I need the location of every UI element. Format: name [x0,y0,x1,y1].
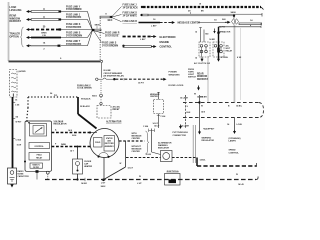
svg-text:CENTER: CENTER [132,138,141,140]
svg-text:8: 8 [105,13,107,15]
label without message center [132,146,143,153]
label w br [194,94,203,99]
label ac clutch relay [113,106,120,112]
svg-text:CONTROL: CONTROL [229,152,240,154]
svg-text:POWER: POWER [169,72,178,74]
svg-text:AND: AND [107,140,111,143]
svg-text:MESSAGE CENTER: MESSAGE CENTER [178,22,201,25]
label message center [178,22,201,25]
brace message center options [146,131,149,154]
svg-text:14 L/B: 14 L/B [238,183,244,186]
svg-text:4 1/8: 4 1/8 [237,56,241,59]
svg-text:CONNECTOR: CONNECTOR [173,135,187,137]
svg-text:CAPACITOR: CAPACITOR [18,175,30,178]
svg-text:FUSE LINK T: FUSE LINK T [66,41,81,43]
svg-text:FUSE LINK K: FUSE LINK K [66,24,81,26]
wire K1 down [201,57,204,62]
wire rail2 dashed [183,117,259,119]
wire C604 riser [152,129,161,155]
wire W4 trailer feed solid [26,32,61,39]
wire breaker chain to power windows [116,78,167,85]
wire gray feeder top [9,58,101,61]
label fuse link T [66,41,82,46]
label fuse panel [19,70,26,73]
wire alt output chain [119,140,145,142]
svg-text:S: S [60,58,62,60]
svg-text:W BLACK: W BLACK [81,98,91,101]
svg-text:S60: S60 [222,19,226,21]
svg-text:SPEED: SPEED [229,150,237,152]
wire dotted riser [99,18,101,61]
node EEC fanout [110,16,112,18]
wire diag to S602 [104,167,126,180]
svg-text:FUSE LINK J: FUSE LINK J [66,14,81,16]
svg-text:14 B: 14 B [68,129,73,132]
svg-text:BLK: BLK [187,112,192,114]
svg-text:L B/Y: L B/Y [151,26,157,28]
wire bottom right feed [197,163,257,167]
label fuse link S 14ga [102,43,125,48]
wire fan to link S14 [94,31,102,42]
wire S608 feed [140,10,262,16]
wire alt bottom drop [103,158,105,180]
wire msg to diamond [198,18,231,24]
label top right small [237,56,241,59]
label relay K2 [226,45,233,53]
connector feeder end [100,60,102,77]
label fuse link J [66,14,82,19]
svg-text:DOOR LOCKS: DOOR LOCKS [169,85,184,87]
svg-text:RELAY: RELAY [113,108,120,111]
svg-text:14 L/B/H: 14 L/B/H [180,97,189,100]
svg-text:C 58: C 58 [15,104,20,106]
connector C604 bracket [143,122,159,132]
svg-text:28: 28 [188,10,191,12]
wire dotted horiz y97 [28,92,78,97]
svg-text:RELAY: RELAY [226,50,233,53]
wire rail1 dashed [183,102,259,104]
regulator stage D [30,163,43,169]
label warm regulator [202,136,215,142]
svg-text:REGULATOR: REGULATOR [202,139,215,142]
svg-text:FUSE LINK V: FUSE LINK V [77,85,91,87]
svg-text:14 BR: 14 BR [201,96,207,99]
svg-text:30: 30 [43,27,46,29]
svg-text:LAMPS: LAMPS [229,140,237,143]
wire thermactor branch [213,25,231,33]
svg-text:S60: S60 [205,34,208,36]
wire W2 tail to splice [61,20,92,30]
regulator stage A [30,124,47,137]
svg-text:S601: S601 [92,96,98,98]
svg-text:FIELD: FIELD [37,155,43,157]
svg-text:14 L/B: 14 L/B [146,153,152,156]
label door locks [169,85,184,87]
svg-text:W 14 B/L: W 14 B/L [221,56,229,59]
wire EEC hollow [100,13,113,22]
svg-text:14 GA BROWN: 14 GA BROWN [66,34,82,37]
relay box ac clutch [97,106,111,119]
label alternator warning indicator [158,141,172,149]
svg-text:ASSEMBLY: ASSEMBLY [105,145,115,148]
label fuse link K [66,24,82,29]
label load leveling [10,6,22,12]
battery box [8,168,17,184]
svg-text:4: 4 [250,24,252,27]
battery ground arrow [10,184,13,187]
wire choke to ground rail [76,174,78,181]
svg-text:14 L/B/H: 14 L/B/H [181,124,190,127]
wire left margin gray vertical [8,2,10,61]
wire firewall corner down [197,158,206,167]
wire top dashed bus [141,3,264,12]
label wot text [203,128,215,130]
svg-text:S602: S602 [101,186,107,188]
wire fan to link R16 [94,31,105,34]
wire W2 rear defrost feed [26,17,61,21]
svg-text:16: 16 [153,19,156,21]
svg-text:FUSE LINK R: FUSE LINK R [105,33,120,35]
label rail right [236,174,244,186]
label fuse link V [77,85,92,90]
svg-text:ELECTRONIC: ELECTRONIC [160,36,176,39]
svg-text:W: W [194,94,196,96]
label between relays [209,38,215,41]
svg-text:DEFROST: DEFROST [10,20,22,23]
svg-text:HEATER: HEATER [84,165,93,168]
label trailer option [10,33,21,39]
svg-text:2: 2 [43,48,45,50]
svg-text:REGULATOR: REGULATOR [54,122,67,125]
wire choke vertical [70,146,79,160]
svg-text:16 GA BLUE: 16 GA BLUE [105,34,119,37]
svg-text:INDICATOR: INDICATOR [158,147,169,150]
wire msgbox stub bottom [154,114,165,129]
wire indicator to firewall [172,157,197,159]
svg-text:14 L/Y: 14 L/Y [128,167,134,170]
svg-text:MESSAGE: MESSAGE [132,148,143,151]
svg-text:A/C: A/C [226,45,230,48]
svg-text:14 GA BLACK: 14 GA BLACK [66,26,82,29]
label with message center [132,133,143,140]
node S602 [101,179,107,188]
inline breaker symbol [96,78,116,80]
svg-text:14 B/L: 14 B/L [200,158,207,161]
wire K2 down [217,57,220,62]
svg-text:18: 18 [199,3,201,5]
svg-text:14: 14 [43,41,46,44]
svg-text:14 GA GREEN: 14 GA GREEN [77,87,92,90]
regulator stage C [29,153,50,161]
wire without branch chain [126,157,161,159]
capacitor symbol [46,171,49,179]
svg-text:A/C (B): A/C (B) [113,106,120,109]
svg-text:ALTERNATOR: ALTERNATOR [158,141,172,144]
wire W3 trailer feed dashed [26,27,61,31]
wire rail end loop [259,103,264,118]
svg-text:S808: S808 [94,24,100,26]
svg-text:JUNCTION A: JUNCTION A [166,170,179,173]
svg-text:14 GA BROWN: 14 GA BROWN [102,44,118,47]
svg-text:14 L/Y: 14 L/Y [153,122,159,125]
svg-text:FUSE LINK S: FUSE LINK S [102,43,117,45]
wire W1 tail to splice [61,12,92,30]
svg-text:LEVELING: LEVELING [10,9,22,12]
svg-text:W: W [139,176,141,178]
svg-text:L B/Y: L B/Y [140,39,146,41]
svg-text:WARNING: WARNING [158,144,168,147]
svg-text:2 B: 2 B [42,35,46,37]
svg-text:ENGINE: ENGINE [160,41,170,44]
wire reg out A dashed [52,128,98,137]
node S608 [230,12,236,17]
svg-text:L/G/H: L/G/H [237,124,243,126]
fuse panel box [10,70,18,98]
ground junction box [165,170,181,185]
svg-text:*EQUIPPED*: *EQUIPPED* [203,128,215,130]
label power windows [169,72,181,77]
wire cluster right vert [217,24,261,42]
label rear window defrost [10,15,22,24]
svg-text:WINDOW: WINDOW [197,76,208,78]
label fuse link S mid [123,13,138,18]
wire x234 below rail2 [233,118,236,135]
wire W5 trailer feed [26,41,61,50]
svg-text:STATOR: STATOR [106,137,113,140]
svg-text:16: 16 [15,100,18,102]
label alternator [106,121,122,124]
svg-text:CONTROL: CONTROL [160,46,173,49]
svg-text:14 GA BLACK: 14 GA BLACK [123,6,139,9]
svg-text:14 GA WHITE: 14 GA WHITE [123,14,138,17]
svg-text:FUSE LINK S: FUSE LINK S [123,13,138,15]
wire thick diag to alternator [78,114,97,129]
connector diamond pair [232,19,239,25]
svg-text:W: W [236,174,238,176]
svg-text:A: A [55,128,57,131]
label fuse link R low [123,21,138,23]
wire cluster left vert [195,28,208,43]
brace trailer option [21,27,24,47]
indicator lamp box [146,151,173,162]
svg-text:14: 14 [250,19,253,22]
fuse symbols [11,73,16,97]
wire W3 tail to splice [61,29,92,31]
regulator bottom terminal [24,161,39,180]
svg-text:REAR: REAR [197,72,204,75]
connector firewall double line [193,125,195,163]
label radio noise capacitor [18,170,30,178]
label choke heater [84,161,93,168]
svg-text:S: S [187,106,189,108]
wire vert x185 [180,95,191,128]
svg-text:24: 24 [50,92,53,95]
svg-text:14: 14 [214,18,217,21]
svg-text:CENTER: CENTER [132,151,141,153]
label electronic engine control [160,36,176,49]
regulator stage B [29,143,50,149]
wire S608 to diamond [233,16,235,19]
svg-text:FUSE LINK S: FUSE LINK S [66,33,81,35]
wire vert x208 [207,56,209,103]
svg-text:DEFROST: DEFROST [197,79,209,81]
svg-text:W: W [201,106,203,108]
svg-text:14: 14 [195,56,197,59]
svg-text:BR: BR [201,11,204,13]
wire W1 load leveling feed [26,9,61,13]
svg-text:14: 14 [195,31,197,34]
svg-text:OPTION: OPTION [10,35,19,38]
svg-text:FUSE LINK R: FUSE LINK R [123,21,138,23]
svg-text:CONTROL: CONTROL [34,146,44,148]
wire hollow right of diamond [239,19,262,25]
label fuse link Y [66,6,82,11]
svg-text:C 604: C 604 [161,115,166,118]
label put through connector [173,125,189,137]
svg-text:14 B: 14 B [201,111,206,114]
wire fan to link S2 [112,15,122,18]
svg-text:FUSE LINK J: FUSE LINK J [123,5,138,7]
wire ground rail [45,177,258,180]
svg-text:RELAY: RELAY [36,156,43,159]
label inline breaker [104,70,125,77]
wire message center feed [139,19,176,27]
relay box K1 [199,42,210,57]
node S808 splice [92,24,101,31]
label voltage regulator [54,120,67,126]
label speed control [229,150,240,155]
label rear window defrost right [197,72,209,81]
wire fan to link R2 [112,18,122,22]
label fuse link R 16ga [105,33,120,38]
label message center option [150,93,160,98]
svg-text:FUSE LINK Y: FUSE LINK Y [66,6,81,8]
wire defrost down arrow [197,86,200,91]
svg-text:S608: S608 [230,12,236,14]
svg-text:16 P/Y: 16 P/Y [138,83,145,85]
label ac switch feed [195,56,229,59]
svg-text:W R/Y: W R/Y [16,121,22,123]
svg-text:(STOWAGE): (STOWAGE) [229,137,241,140]
svg-text:L S/T: L S/T [137,183,142,185]
svg-text:C 604: C 604 [143,125,149,128]
svg-text:L S/T: L S/T [101,183,106,185]
svg-text:S4: S4 [16,115,19,118]
svg-text:W: W [120,163,122,165]
svg-text:ALTERNATOR: ALTERNATOR [106,121,122,124]
relay box K2 [213,42,224,57]
svg-text:S604: S604 [72,134,76,137]
wire fan to link J2 [112,7,122,17]
svg-text:WINDOWS: WINDOWS [169,74,181,76]
svg-text:(IN STARTER RELAY): (IN STARTER RELAY) [104,74,125,77]
svg-text:(ACBD: (ACBD [19,70,26,73]
wire diamond down [234,25,235,103]
wire W5 tail to splice [61,31,92,46]
svg-text:FILTER: FILTER [33,167,40,169]
svg-text:14 B/O: 14 B/O [81,182,88,185]
wire battery main vertical [13,97,22,168]
alternator circle [90,129,119,158]
svg-text:CENTER: CENTER [150,96,158,98]
label fuse link J top [123,5,139,10]
label stowage lamps [229,137,241,143]
alternator rectifier box [104,136,115,152]
svg-text:EEC: EEC [108,20,113,22]
node S601 connector [92,81,102,105]
label ac clutch switch [194,62,210,65]
alternator bottom terminals [97,153,109,158]
svg-text:14: 14 [227,123,230,126]
wire W4 tail to splice [61,30,92,37]
svg-text:SWITCH: SWITCH [188,76,196,78]
wire vert x199 [198,95,207,135]
label rail marks [81,176,142,185]
svg-text:14 GA BLACK: 14 GA BLACK [66,16,82,19]
svg-text:MESSAGE: MESSAGE [132,135,143,138]
wire dotted diag to regulator [27,108,28,120]
wire msgbox stub top [157,92,160,99]
svg-text:14 B/L: 14 B/L [236,105,243,108]
svg-text:14 GA GREEN: 14 GA GREEN [66,8,82,11]
voltage regulator box [25,120,52,171]
wire dotted vert x28 [27,97,29,108]
svg-text:38 BLACK: 38 BLACK [80,105,90,108]
svg-text:FIELD: FIELD [95,142,101,144]
svg-text:C 604: C 604 [16,138,22,141]
wire mid drop x125 [120,141,134,170]
svg-text:14 GA BLACK: 14 GA BLACK [66,43,82,46]
wire EEC hollow branch [123,45,157,48]
svg-text:F: F [55,143,57,145]
svg-text:14 B/R: 14 B/R [209,38,215,41]
svg-text:P/O: P/O [54,95,58,97]
alternator field box [94,138,103,148]
label from turn light switch [188,69,196,79]
svg-text:14 Y: 14 Y [70,150,75,153]
svg-text:B: B [228,106,230,108]
wire EEC dashed branch [123,35,157,41]
wire reg out F dashed [52,143,92,146]
connector box message center [154,100,164,114]
svg-text:CIRCUIT BREAKER: CIRCUIT BREAKER [104,72,123,75]
label fuse link S brown [66,33,82,38]
svg-text:16 W: 16 W [17,144,22,146]
wire thick vert x78 [78,97,91,114]
wire faint vert x240 [240,28,242,100]
svg-text:W/BK: W/BK [61,144,67,146]
wire vert x234 labels [227,105,243,126]
choke box [73,159,83,174]
